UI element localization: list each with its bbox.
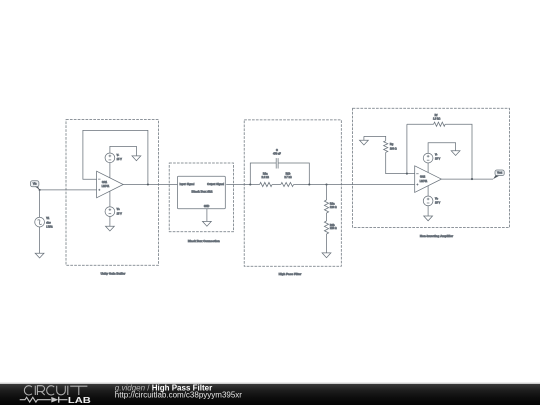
wire Black Box output to HPF [226,184,259,186]
svg-text:Vin: Vin [33,182,37,185]
capacitor C 470 nF [250,149,309,185]
dashed enclosure: Black Box Connection [169,163,233,232]
svg-text:Rg: Rg [390,143,394,146]
node Vin [31,181,40,190]
svg-text:15 V: 15 V [435,158,440,161]
wire Black Box GND pin [206,209,208,222]
svg-text:120 Ω: 120 Ω [330,206,337,209]
svg-text:100 Ω: 100 Ω [390,148,397,151]
ground for OA2 V+ [424,216,433,221]
svg-text:LM741: LM741 [102,185,110,188]
svg-text:Output Signal: Output Signal [207,182,224,186]
resistor Rg 100 Ohm [384,141,397,153]
svg-text:LM741: LM741 [420,180,428,183]
wire V1 branch [39,190,41,218]
wire OA2 V- to ground [428,143,456,154]
footer bar [0,383,540,385]
svg-text:1.8 kΩ: 1.8 kΩ [433,117,440,120]
svg-text:V+: V+ [117,208,121,211]
ground below R2b [322,253,331,258]
svg-text:OA1: OA1 [102,181,108,184]
dashed enclosure: Unity Gain Buffer [66,120,159,266]
resistor R1b 2.7 kOhm [281,173,294,187]
ground for OA1 V+ [106,226,115,231]
junction at Vin/V1 [39,189,41,191]
junction feedback/- input [406,173,408,175]
dashed enclosure: Non-Inverting Amplifier [353,108,510,227]
svg-text:470 nF: 470 nF [273,152,281,155]
svg-text:15 V: 15 V [117,158,122,161]
wire ground to Rg [364,136,386,140]
ground for OA1 V- [132,156,141,161]
source V+ 15 V (OA2 positive supply) [423,186,440,206]
svg-text:sine: sine [46,221,51,224]
source V1 sine 1 kHz [35,217,54,229]
junction OA1 output/feedback [147,183,149,185]
svg-text:GND: GND [204,205,210,208]
svg-text:Non-Inverting Amplifier: Non-Inverting Amplifier [420,234,454,238]
svg-text:2.2 kΩ: 2.2 kΩ [262,176,269,179]
svg-text:Black Box Connection: Black Box Connection [188,239,220,243]
svg-text:OA2: OA2 [420,175,426,178]
junction HPF left [249,183,251,185]
wire Rg to OA2 - input [386,152,415,173]
svg-text:220 Ω: 220 Ω [330,227,337,230]
wire feedback top right [445,124,472,179]
CircuitLab logo: CIRCUIT outline letters [24,386,87,395]
svg-text:Black Box #22: Black Box #22 [192,190,213,194]
svg-text:Unity Gain Buffer: Unity Gain Buffer [101,272,127,276]
svg-text:15 V: 15 V [435,202,440,205]
svg-text:Input Signal: Input Signal [180,182,195,186]
wire V- to ground (OA1) [110,146,136,156]
wire OA1 feedback (output to - input) [83,130,148,184]
junction OA2 output/feedback [471,178,473,180]
wire R1a-R1b [272,184,281,186]
ground for OA2 V- [451,151,460,156]
svg-text:C: C [276,149,278,152]
dashed enclosure: High Pass Filter [244,120,341,266]
wire V+ to ground (OA1) [109,216,111,226]
wire R2 branch [326,185,328,201]
svg-text:http://circuitlab.com/c38pyyym: http://circuitlab.com/c38pyyym395xr [115,390,242,399]
resistor R2a 120 Ohm [324,200,336,213]
svg-text:V-: V- [117,154,120,157]
ground below Black Box [203,221,212,226]
source V+ 15 V (OA1 positive supply) [105,191,122,216]
wire feedback left vertical [406,124,408,173]
wire R1b to OA2 + input [294,184,415,186]
wire OA2 output [441,178,493,180]
wire R2b to ground [326,234,328,253]
op-amp OA2 LM741 [415,166,442,193]
resistor R2b 220 Ohm [324,221,336,234]
node Vout [493,170,504,179]
wire R2a-R2b [326,213,328,221]
junction cap right [308,183,310,185]
junction R2 branch [325,183,327,185]
ground for Rg [360,136,369,145]
wire Vin to OA1 + input [40,189,97,191]
ground below V1 [35,253,44,258]
svg-text:High Pass Filter: High Pass Filter [279,272,303,276]
resistor Rf 1.8 kOhm [433,114,445,126]
svg-text:Vout: Vout [497,172,502,175]
wire feedback top left [407,123,434,125]
black box BB #22 [178,176,226,208]
op-amp OA1 LM741 [97,171,124,198]
source V- 15 V (OA2 negative supply) [423,153,440,172]
svg-text:V+: V+ [435,197,439,200]
wire V1 to ground [39,227,41,253]
svg-text:LAB: LAB [68,396,91,405]
svg-text:15 V: 15 V [117,212,122,215]
CircuitLab logo: resistor + diode glyph [20,397,68,403]
wire OA2 V+ to ground [427,206,429,216]
resistor R1a 2.2 kOhm [260,173,273,187]
svg-text:2.7 kΩ: 2.7 kΩ [284,176,291,179]
svg-text:V-: V- [435,153,438,156]
svg-text:1 kHz: 1 kHz [46,226,53,229]
source V- 15 V (OA1 negative supply) [105,153,122,178]
wire OA1 output to Black Box input [123,184,177,186]
